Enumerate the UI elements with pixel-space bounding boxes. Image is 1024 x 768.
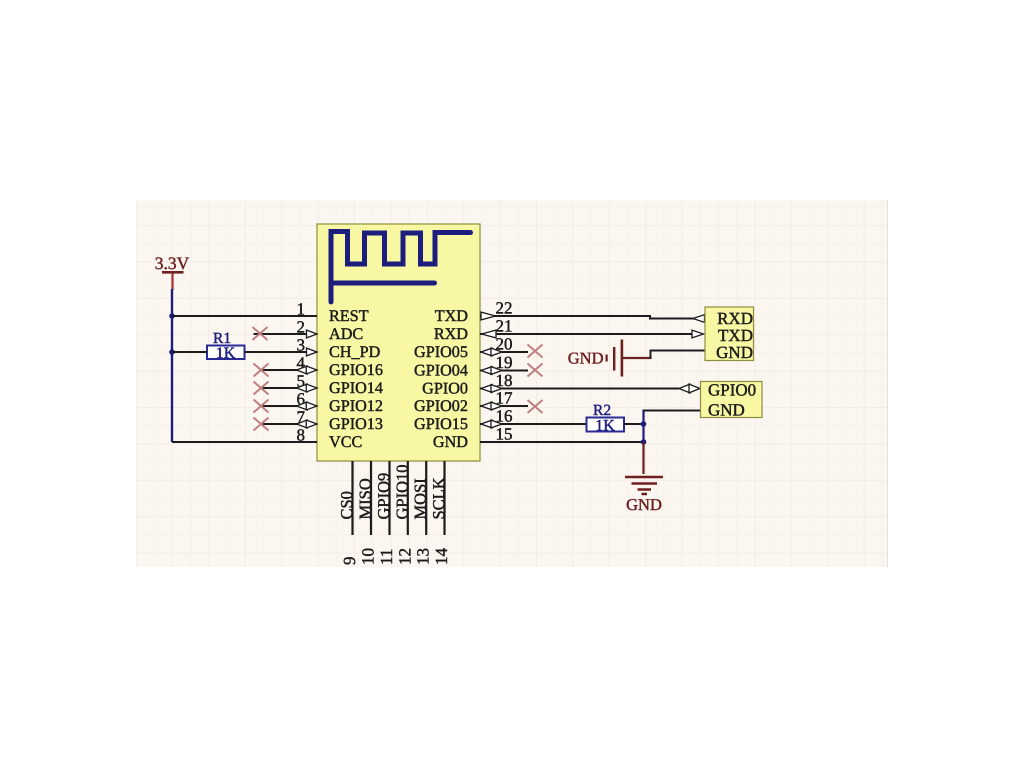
header J1 RXD/TXD/GND [705,307,754,361]
no-connect X pin4 [254,364,269,377]
antenna feed line [331,281,435,286]
svg-text:11: 11 [377,549,396,565]
svg-text:GPIO9: GPIO9 [374,473,393,520]
wire pin21 RXD to TXD header [480,333,693,335]
svg-text:GND: GND [716,343,753,362]
wire GND port to header [622,357,651,359]
wire bottom pin 13 [425,461,427,535]
svg-text:GPIO13: GPIO13 [329,415,383,433]
wire pin22 TXD to RXD header [480,316,694,319]
svg-text:GPIO14: GPIO14 [329,379,383,397]
wire pin15 GND [480,441,644,443]
svg-text:R2: R2 [593,402,611,419]
no-connect X pin17 [528,400,543,413]
svg-text:GPIO10: GPIO10 [392,464,411,519]
wire bottom pin 12 [407,461,409,535]
svg-text:ADC: ADC [329,325,363,343]
svg-text:GPIO15: GPIO15 [414,415,468,433]
svg-text:3.3V: 3.3V [155,253,190,273]
wire down to ground [642,442,644,474]
wire pin6 stub [261,405,298,407]
wire pin18 GPIO0 [480,388,679,390]
wire bottom pin 14 [443,461,445,535]
no-connect X pin5 [254,382,269,395]
svg-text:9: 9 [340,557,359,566]
svg-text:GPIO0: GPIO0 [708,381,756,400]
svg-text:MISO: MISO [356,478,375,519]
wire pin8 VCC [172,441,317,443]
svg-text:21: 21 [496,317,513,336]
resistor R2 [587,418,625,432]
svg-text:GND: GND [568,349,604,368]
svg-text:22: 22 [496,299,513,318]
svg-text:GPIO05: GPIO05 [414,343,468,361]
svg-text:TXD: TXD [435,307,469,325]
svg-text:CH_PD: CH_PD [329,343,381,361]
svg-text:GND: GND [708,401,745,420]
wire bottom pin 11 [388,461,390,535]
IC U1 ESP-12 module body [317,224,480,461]
junction node pin15 [641,439,647,445]
no-connect X pin2 [253,327,268,340]
svg-text:GPIO02: GPIO02 [414,397,468,415]
resistor R1 [207,346,245,360]
junction node pin1 [169,313,175,319]
junction node pin3 [169,349,175,355]
svg-text:13: 13 [414,548,433,565]
svg-text:GND: GND [433,433,468,451]
svg-text:MOSI: MOSI [411,478,430,519]
svg-text:GPIO16: GPIO16 [329,361,383,379]
wire bottom pin 10 [370,461,372,535]
wire pin2 ADC stub [254,333,308,335]
wire pin4 stub [261,369,298,371]
svg-text:GPIO0: GPIO0 [422,380,468,398]
svg-text:SCLK: SCLK [429,477,448,519]
no-connect X pin19 [528,364,543,377]
wire pin17 stub [480,405,528,407]
wire pin3 CH_PD [172,351,207,353]
wire pin7 stub [261,423,298,425]
wire pin5 stub [261,387,298,389]
no-connect X pin6 [254,400,269,413]
wire pin1 REST [172,315,317,317]
svg-text:1K: 1K [216,345,236,362]
header J2 GPIO0/GND [701,382,763,418]
svg-text:REST: REST [329,307,369,325]
svg-text:1K: 1K [595,418,615,435]
net vertical to GND header [642,410,644,444]
no-connect X pin7 [254,418,269,431]
svg-text:10: 10 [359,548,378,565]
ground symbol GND [625,477,663,494]
wire pin16 GPIO15 to R2 [480,423,587,425]
svg-text:VCC: VCC [329,433,362,451]
antenna meander inside U1 [331,232,471,303]
wire pin19 stub [480,370,528,372]
svg-text:GPIO04: GPIO04 [414,362,468,380]
svg-text:GND: GND [626,495,662,514]
junction node R2 [641,421,647,427]
svg-text:14: 14 [432,548,451,566]
svg-text:12: 12 [395,548,414,565]
svg-text:15: 15 [496,425,513,444]
svg-text:CS0: CS0 [337,491,356,519]
svg-text:GPIO12: GPIO12 [329,397,383,415]
svg-text:RXD: RXD [434,325,468,343]
wire 3.3V rail vertical [171,289,173,442]
wire pin20 stub [480,351,528,353]
wire R2 to node [624,423,644,425]
wire bottom pin 9 [351,461,353,535]
no-connect X pin20 [528,345,543,358]
